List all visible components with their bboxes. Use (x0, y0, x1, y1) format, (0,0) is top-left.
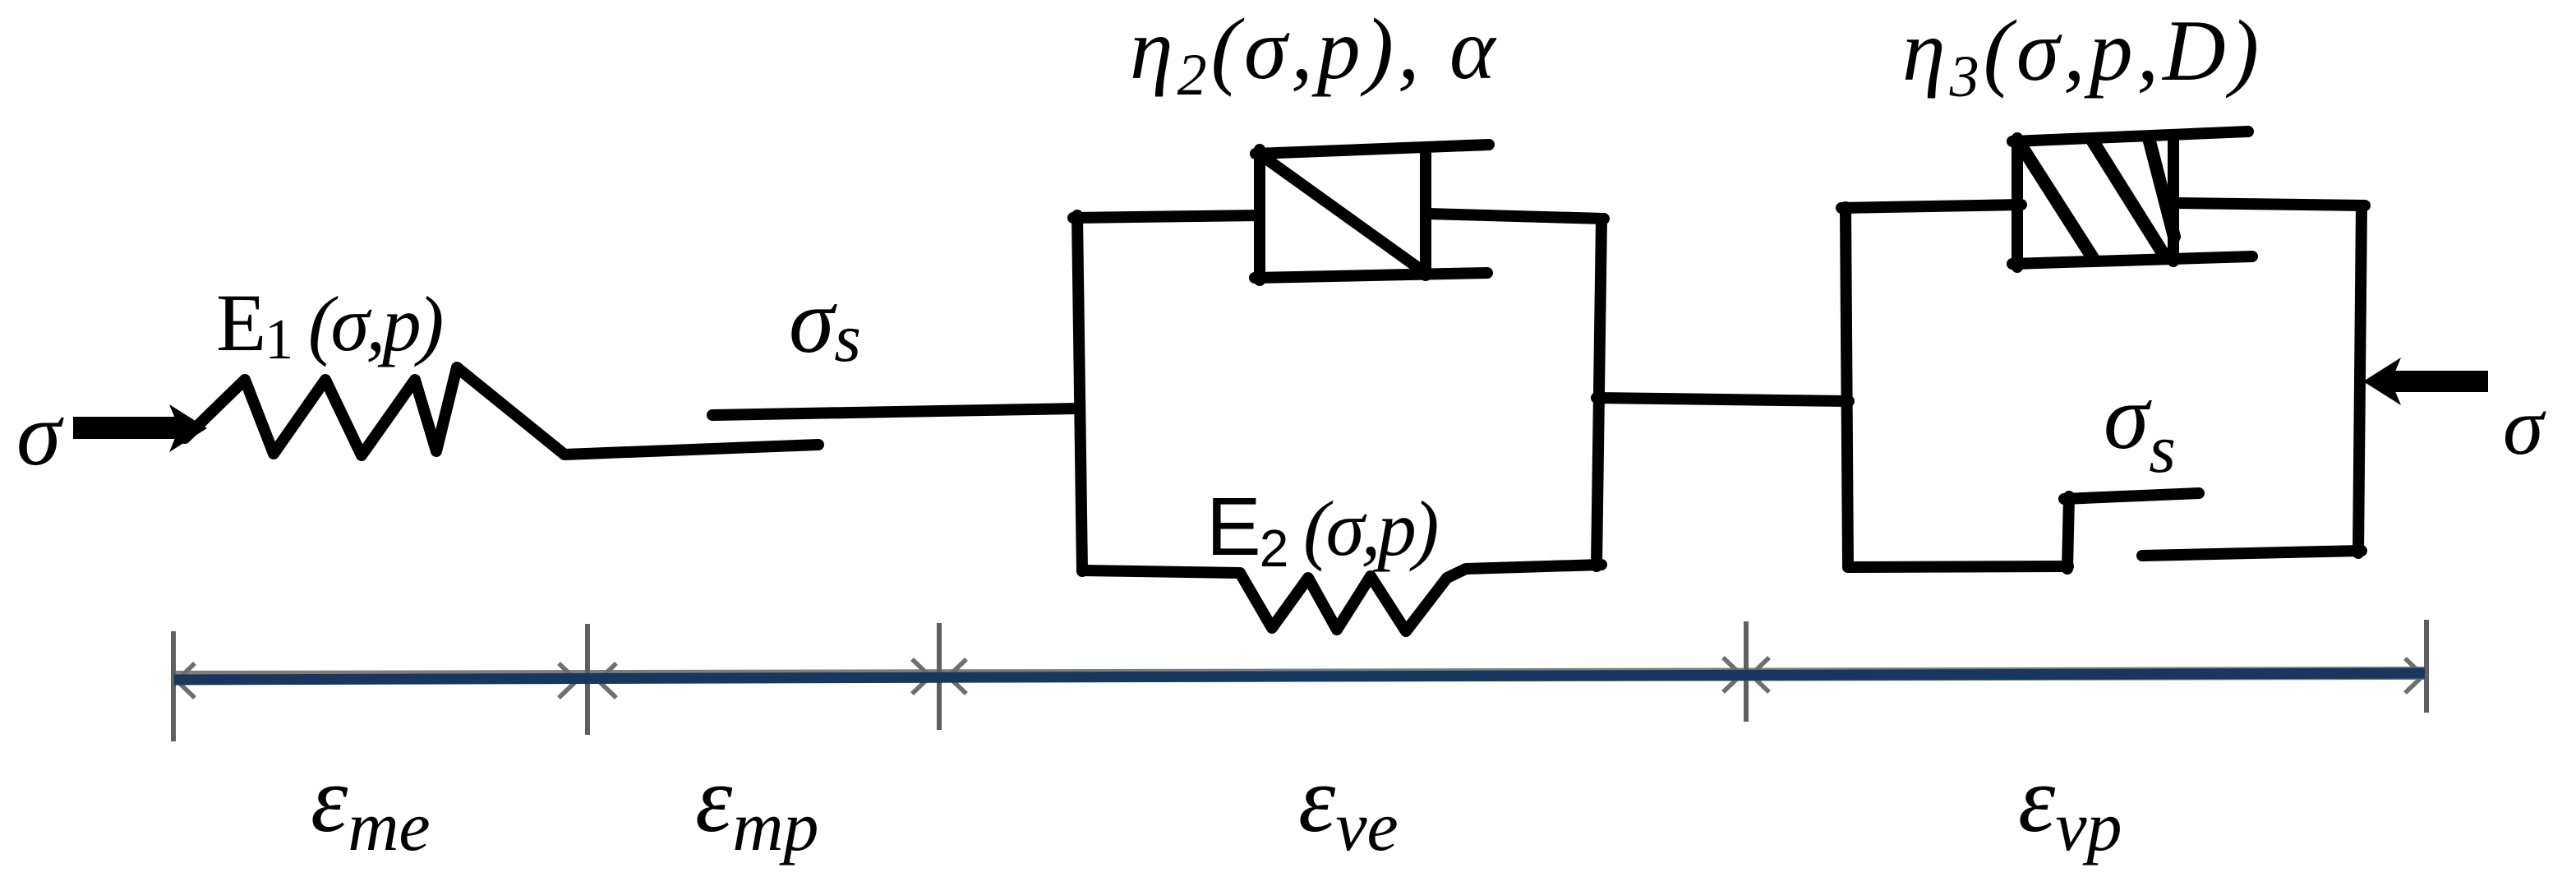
output stress arrow (2363, 358, 2488, 405)
dashpot eta2 rod (1427, 214, 1604, 219)
svg-text:σ: σ (2503, 381, 2546, 472)
svg-text:σ: σ (16, 384, 64, 484)
dashpot eta2 diagonal (1264, 157, 1421, 270)
spring E2 with bottom wire (1082, 565, 1601, 631)
viscoplastic element right edge wire (2358, 205, 2362, 553)
slider step vertical (2067, 496, 2069, 569)
Kelvin element top-left wire (1073, 215, 1260, 218)
viscoplastic element left edge wire (1846, 207, 1848, 567)
dimension gray baseline (173, 673, 2426, 677)
slider sigma_s upper plate (712, 409, 1077, 415)
dashpot eta3 cylinder (2012, 132, 2252, 267)
dimension ticks (173, 620, 2426, 741)
slider bottom left wire (1848, 566, 2068, 567)
svg-text:E2 (σ,p): E2 (σ,p) (1206, 481, 1437, 578)
viscoplastic element top-left wire (1841, 205, 2021, 208)
input stress arrow (73, 404, 207, 452)
slider lower plate (2142, 551, 2362, 556)
dimension navy line (174, 673, 2425, 680)
dimension arrowheads (177, 658, 2423, 698)
dashpot eta3 hatch stripes (2019, 141, 2174, 261)
Kelvin element left edge wire (1077, 215, 1082, 571)
wire between Kelvin and viscoplastic elements (1597, 398, 1849, 401)
slider upper plate (2064, 493, 2199, 499)
svg-text:E1 (σ,p): E1 (σ,p) (216, 277, 442, 372)
dashpot eta2 cylinder (1255, 145, 1489, 280)
spring E1 (185, 367, 818, 455)
Kelvin element right edge wire (1597, 219, 1601, 566)
dashpot eta3 rod (2176, 203, 2365, 205)
